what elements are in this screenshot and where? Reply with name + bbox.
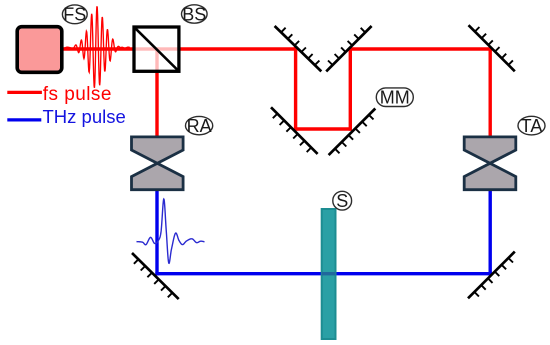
wire fs beam: BS to MM left mirror: [179, 47, 298, 50]
mirror MM lower-right: [329, 109, 376, 156]
beam splitter BS: [134, 27, 179, 71]
mirror MM lower-left: [271, 107, 318, 154]
wire fs beam: MM right up leg: [349, 47, 352, 131]
mirror MM upper-left: [275, 26, 322, 71]
label TA: [518, 116, 545, 136]
mirror bottom-right corner: [468, 252, 515, 299]
svg-text:fs pulse: fs pulse: [43, 84, 112, 105]
wire fs beam: MM to top-right mirror: [349, 47, 492, 50]
svg-text:BS: BS: [182, 4, 206, 24]
fs pulse wavelet graphic: [64, 6, 130, 88]
svg-text:FS: FS: [63, 5, 86, 25]
wire THz beam: bottom horizontal through sample: [155, 272, 492, 275]
legend fs pulse swatch: [7, 91, 42, 94]
THz analyzer TA: [464, 137, 516, 190]
svg-text:RA: RA: [187, 116, 212, 136]
wire fs beam: MM bottom horizontal: [294, 127, 352, 130]
wire THz beam: RA down to bottom-left mirror: [155, 187, 158, 275]
sample S bar: [322, 209, 336, 339]
svg-text:TA: TA: [521, 116, 543, 136]
mirror top-right corner: [469, 25, 515, 71]
THz pulse wavelet graphic: [137, 199, 205, 263]
laser source box FS: [17, 27, 62, 73]
wire THz beam: bottom-right mirror up to TA: [489, 187, 492, 276]
mirror MM upper-right: [326, 26, 371, 71]
legend THz pulse swatch: [7, 118, 41, 121]
wire fs beam: BS down to RA: [155, 71, 158, 140]
label S: [333, 191, 352, 211]
label MM: [376, 88, 413, 108]
wire fs beam: down to TA: [489, 47, 492, 140]
THz emitter RA: [132, 137, 184, 190]
svg-text:MM: MM: [380, 88, 410, 108]
wire fs beam: MM left down leg: [294, 47, 297, 131]
svg-text:S: S: [336, 191, 348, 211]
label FS: [62, 5, 87, 25]
wire fs beam: laser to BS: [62, 47, 134, 50]
svg-text:THz pulse: THz pulse: [43, 106, 126, 127]
mirror bottom-left corner: [132, 253, 179, 299]
label RA: [186, 116, 213, 136]
label BS: [182, 4, 208, 24]
